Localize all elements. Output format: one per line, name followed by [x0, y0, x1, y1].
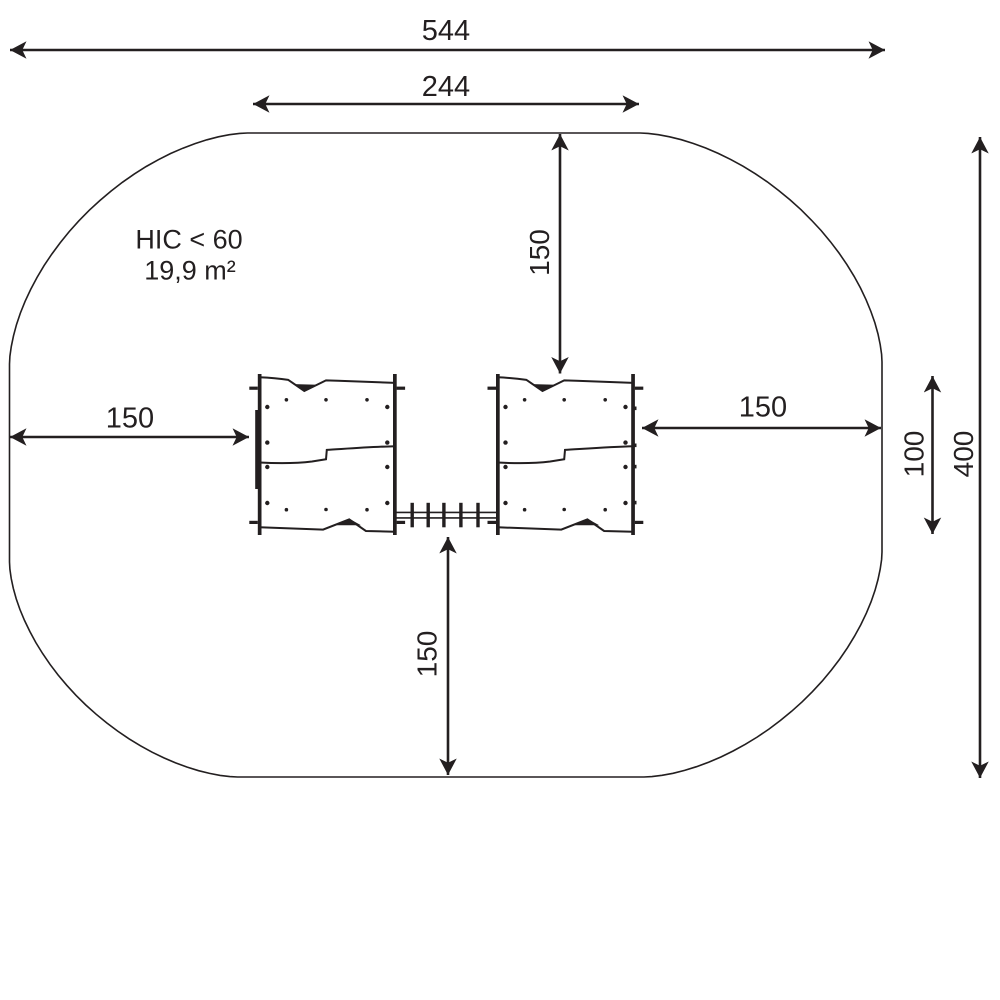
svg-text:HIC < 60: HIC < 60 [135, 225, 242, 255]
svg-text:150: 150 [524, 229, 555, 276]
svg-text:100: 100 [899, 431, 930, 478]
svg-text:244: 244 [422, 71, 470, 103]
svg-text:400: 400 [948, 431, 979, 478]
svg-text:150: 150 [106, 403, 154, 435]
svg-text:150: 150 [412, 631, 443, 678]
svg-text:544: 544 [422, 15, 470, 47]
svg-text:150: 150 [739, 392, 787, 424]
svg-text:19,9 m²: 19,9 m² [144, 256, 236, 286]
